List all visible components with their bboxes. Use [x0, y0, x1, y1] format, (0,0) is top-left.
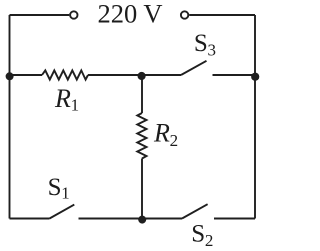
wire S2 contact to bottom-right corner — [214, 218, 255, 220]
wire right vertical — [254, 15, 256, 219]
wire top-right from terminal to corner — [189, 14, 255, 16]
junction node right — [251, 73, 259, 81]
svg-text:R1: R1 — [54, 84, 79, 114]
switch S2 blade — [182, 204, 208, 218]
resistor R2 — [137, 113, 146, 159]
wire S3 contact to right junction — [213, 74, 256, 76]
svg-text:S2: S2 — [191, 221, 213, 250]
junction node middle-bottom — [138, 216, 146, 224]
wire left vertical — [9, 15, 11, 219]
svg-text:220 V: 220 V — [98, 0, 163, 29]
svg-text:S1: S1 — [48, 174, 70, 203]
terminal left (source) — [70, 11, 77, 18]
resistor R1 — [42, 70, 88, 79]
switch S3 blade — [181, 61, 207, 75]
svg-text:R2: R2 — [153, 119, 178, 151]
junction node left — [6, 72, 14, 80]
wire bottom-left to S1 pivot — [10, 218, 50, 220]
wire top-left to terminal — [10, 14, 70, 16]
wire R1 to middle junction to S3 pivot — [88, 74, 181, 76]
wire middle horizontal (node A row) — [10, 74, 43, 76]
svg-text:S3: S3 — [194, 30, 216, 60]
wire S1 contact to middle bottom junction — [79, 218, 183, 220]
junction node middle-top — [138, 72, 146, 80]
terminal right (source) — [181, 11, 188, 18]
wire middle vertical top — [141, 75, 143, 113]
wire middle vertical bottom — [141, 159, 143, 219]
switch S1 blade — [50, 205, 75, 219]
